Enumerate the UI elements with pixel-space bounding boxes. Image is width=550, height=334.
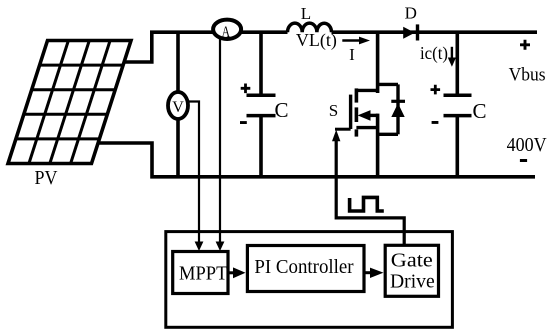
MOSFET drain branch wire	[376, 32, 380, 93]
arrow PI Controller to Gate Drive	[364, 271, 371, 274]
svg-text:Vbus: Vbus	[509, 65, 546, 86]
inductor L	[288, 23, 332, 32]
svg-text:PV: PV	[35, 167, 58, 189]
ammeter A	[213, 20, 241, 39]
wire capacitor C2 top branch	[455, 32, 459, 95]
arrowhead A tap	[216, 242, 225, 252]
Vbus plus label	[520, 40, 530, 50]
capacitor C1	[247, 95, 276, 115]
PV panel outline	[8, 41, 131, 164]
Gate Drive box	[385, 245, 438, 296]
wire ammeter tap to MPPT	[219, 38, 221, 242]
svg-text:L: L	[301, 4, 311, 23]
PV panel grid	[16, 41, 123, 164]
gate pulse symbol	[350, 197, 384, 211]
C2 minus label	[432, 121, 439, 124]
MOSFET gate bar	[349, 95, 352, 129]
wire voltmeter branch	[176, 32, 180, 177]
body diode bottom branch wire	[378, 133, 398, 136]
MPPT box	[173, 252, 228, 294]
MOSFET body arrow	[370, 114, 378, 117]
wire capacitor C1 top branch	[259, 32, 263, 95]
MOSFET gate lead	[335, 128, 351, 131]
body diode cathode bar	[391, 100, 405, 103]
capacitor C2	[444, 95, 472, 115]
svg-text:MPPT: MPPT	[179, 263, 227, 285]
svg-text:C: C	[274, 98, 288, 122]
diode D triangle	[403, 27, 415, 39]
svg-text:C: C	[472, 99, 486, 123]
svg-text:ic(t): ic(t)	[420, 43, 448, 64]
gate drive arrow into MOSFET gate	[332, 130, 340, 141]
PI Controller box	[247, 246, 364, 292]
body diode triangle	[391, 103, 404, 117]
MOSFET channel dashes	[355, 88, 359, 136]
minus label	[520, 159, 527, 162]
svg-text:400V: 400V	[507, 134, 547, 156]
wire capacitor C2 bottom branch	[455, 116, 459, 177]
wire capacitor C1 bottom branch	[259, 116, 263, 177]
wire voltmeter tap to MPPT	[188, 102, 199, 243]
voltmeter V	[168, 92, 188, 119]
svg-text:S: S	[329, 101, 338, 120]
C1 plus label	[241, 84, 251, 94]
svg-text:VL(t): VL(t)	[296, 30, 337, 51]
wire PV bottom tap + bottom bus rail	[98, 143, 535, 177]
C2 plus label	[431, 85, 441, 95]
arrowhead V tap	[195, 242, 204, 252]
ic(t) arrow	[451, 47, 453, 59]
MOSFET source/lower wire	[376, 114, 380, 177]
svg-text:Gate: Gate	[391, 250, 433, 272]
wire PV top tap + top bus wire	[124, 32, 537, 62]
MOSFET source tab	[356, 126, 377, 129]
arrow MPPT to PI Controller	[228, 271, 235, 274]
svg-text:PI Controller: PI Controller	[254, 256, 354, 278]
svg-text:A: A	[221, 24, 230, 42]
svg-text:I: I	[349, 45, 355, 64]
C1 minus label	[240, 121, 247, 124]
svg-text:Drive: Drive	[390, 271, 435, 293]
svg-text:D: D	[405, 4, 417, 23]
body diode top branch wire	[378, 83, 398, 86]
svg-text:V: V	[172, 99, 184, 116]
body diode vertical wire	[396, 84, 399, 134]
MOSFET Q drain tab	[356, 89, 377, 92]
current arrow I	[342, 39, 360, 42]
controller outer box	[166, 232, 453, 328]
wire gate drive to gate	[336, 141, 404, 246]
diode D cathode bar	[416, 24, 419, 40]
